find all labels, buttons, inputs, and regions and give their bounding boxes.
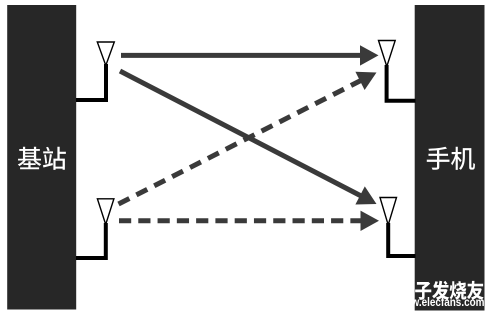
svg-text:w.elecfans.com: w.elecfans.com (411, 297, 485, 309)
